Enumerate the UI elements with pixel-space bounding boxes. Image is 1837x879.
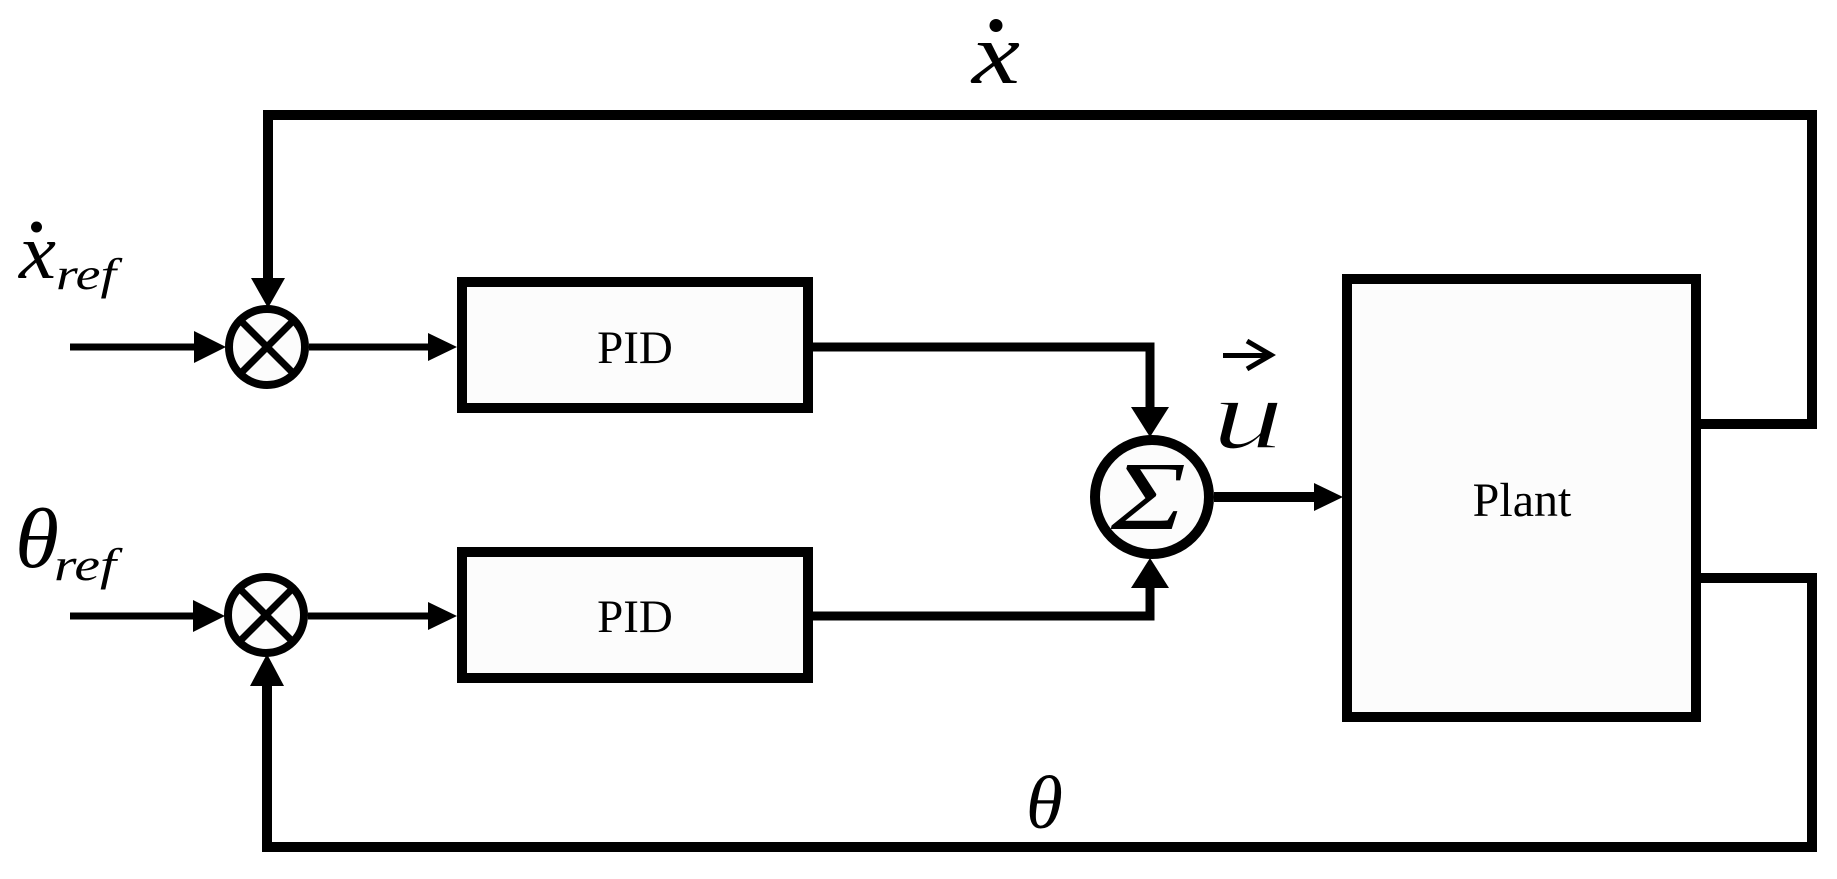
svg-text:Plant: Plant (1473, 474, 1572, 527)
arrowhead into PID1 (428, 333, 457, 361)
svg-text:u: u (1212, 359, 1284, 470)
label u (control vector, arrow over u) (1212, 341, 1284, 470)
arrowhead into summer (bottom) (1131, 558, 1169, 588)
svg-text:θ: θ (1026, 762, 1063, 845)
arrowhead into summer (top) (1131, 407, 1169, 437)
svg-text:θ: θ (15, 492, 59, 586)
svg-text:Σ: Σ (1110, 443, 1186, 551)
arrowhead input into S2 (193, 600, 225, 632)
svg-text:ref: ref (56, 250, 123, 299)
wire top feedback (from Plant right side up and across to S1) (268, 115, 1812, 424)
svg-text:PID: PID (597, 322, 673, 374)
block PID1 (upper PID controller) (462, 282, 808, 408)
wire PID2 output to summer bottom (813, 586, 1150, 616)
arrowhead into PID2 (428, 602, 457, 630)
svg-text:x: x (18, 208, 56, 295)
block PID2 (lower PID controller) (462, 552, 808, 678)
wire summer to Plant (1214, 492, 1318, 502)
wire input theta_ref to S2 (70, 613, 200, 620)
arrowhead into summing junction S2 (from below) (250, 654, 284, 686)
label xdot_ref (18, 208, 123, 299)
wire bottom feedback (from Plant right side down, across bottom, up to S2) (267, 578, 1812, 847)
block Plant (1347, 279, 1696, 717)
arrowhead input into S1 (194, 331, 226, 363)
wire S1 to PID1 (309, 344, 432, 351)
svg-text:PID: PID (597, 591, 673, 643)
summing junction S2 (circle with X) (228, 577, 304, 653)
wire PID1 output to summer top (813, 347, 1150, 410)
wire S2 to PID2 (308, 613, 432, 620)
wire input xdot_ref to S1 (70, 344, 200, 351)
label xdot (feedback signal x-dot, top center) (970, 5, 1020, 102)
summer SIGMA (circle with capital sigma) (1095, 440, 1209, 554)
label theta_ref (15, 492, 124, 590)
arrowhead into Plant (1314, 483, 1343, 511)
summing junction S1 (circle with X) (229, 309, 305, 385)
svg-text:ref: ref (54, 539, 124, 590)
arrowhead into summing junction S1 (top) (251, 278, 285, 308)
